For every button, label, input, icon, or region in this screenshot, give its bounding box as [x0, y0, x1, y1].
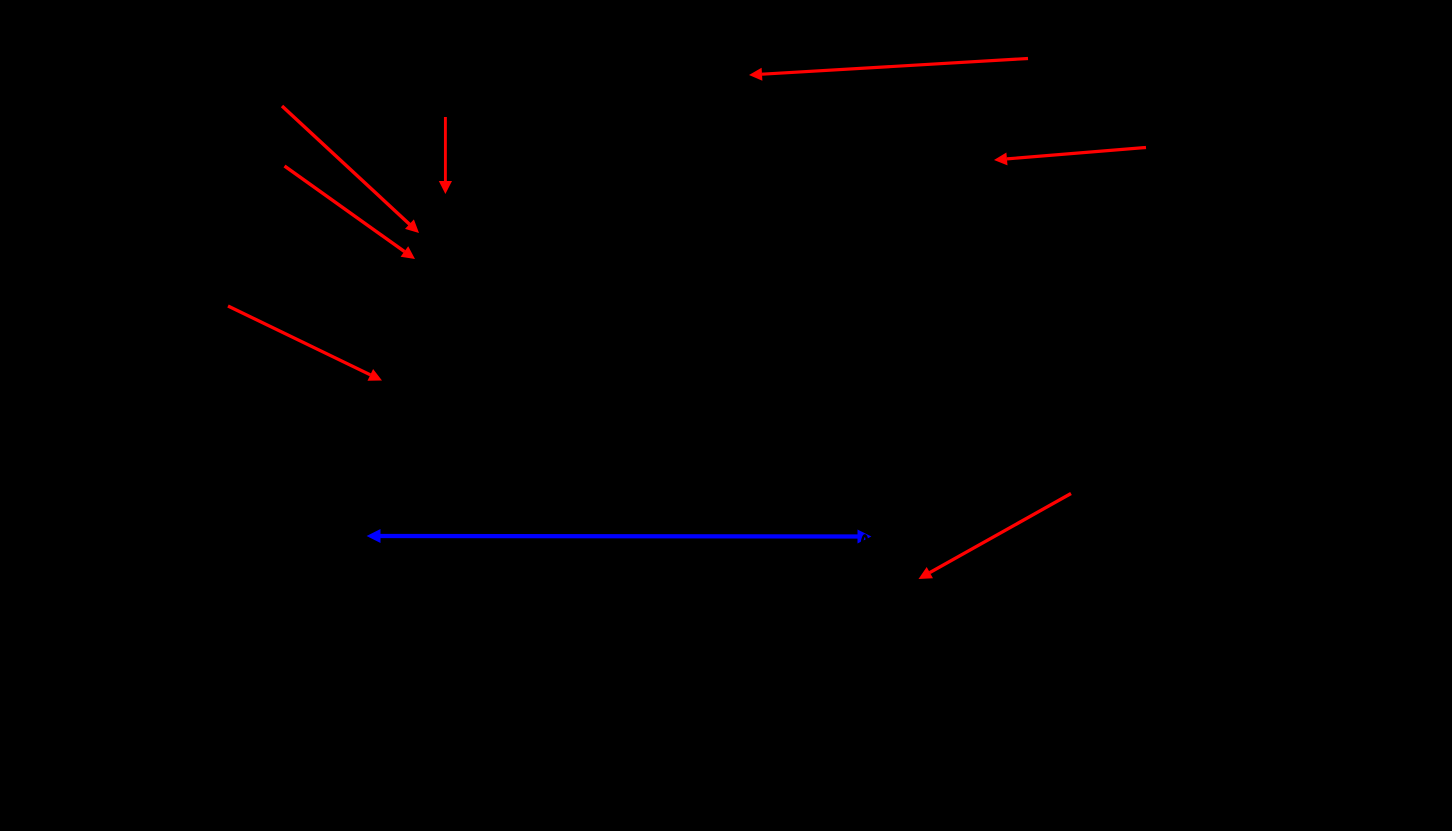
annotation arrow A3 (red, short vertical, pointing down) [439, 117, 452, 194]
annotation arrow A6 (red, mid-left diagonal, pointing down-right) [228, 306, 382, 381]
annotation arrow A1 (red, upper-left long diagonal) [282, 106, 419, 233]
wire (black schematic trace crossing the right blue arrowhead) [861, 535, 867, 545]
annotation arrow A2 (red, parallel diagonal below A1) [285, 166, 416, 259]
annotation arrow A7 (red, lower-right diagonal, pointing down-left) [919, 494, 1072, 580]
dimension arrow D1 (blue, horizontal, double-headed) [367, 529, 872, 544]
annotation arrow A4 (red, top, pointing left) [749, 59, 1028, 81]
annotation arrow A5 (red, upper-right, pointing left) [994, 148, 1146, 166]
